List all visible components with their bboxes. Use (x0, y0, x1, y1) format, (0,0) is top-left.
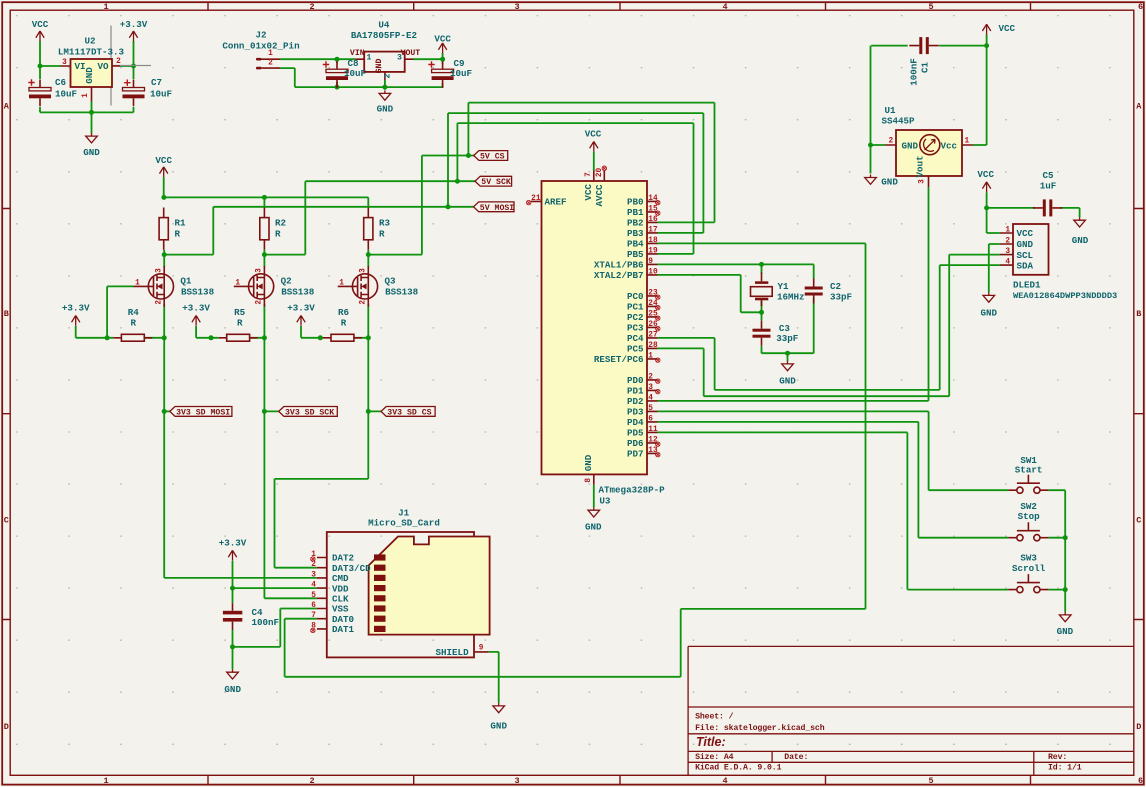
svg-text:Q1: Q1 (180, 276, 192, 287)
svg-text:PC5: PC5 (627, 344, 644, 355)
svg-text:DLED1: DLED1 (1013, 279, 1041, 290)
svg-text:5V CS: 5V CS (480, 153, 505, 162)
svg-text:2: 2 (309, 2, 314, 12)
svg-text:1uF: 1uF (1040, 180, 1057, 191)
svg-text:BSS138: BSS138 (181, 286, 215, 297)
svg-text:PB0: PB0 (627, 197, 644, 208)
svg-text:100nF: 100nF (252, 617, 280, 628)
svg-text:GND: GND (583, 454, 594, 471)
svg-text:A: A (1136, 102, 1142, 112)
svg-text:Vout: Vout (915, 155, 926, 177)
svg-text:Start: Start (1015, 464, 1043, 475)
svg-text:U1: U1 (884, 105, 896, 116)
svg-text:5V MOSI: 5V MOSI (480, 204, 514, 213)
svg-text:R6: R6 (338, 307, 349, 318)
svg-text:1: 1 (268, 50, 273, 58)
svg-text:PC3: PC3 (627, 323, 644, 334)
svg-text:1: 1 (135, 279, 140, 287)
svg-text:9: 9 (479, 644, 484, 652)
svg-text:C6: C6 (55, 77, 66, 88)
svg-text:PD3: PD3 (627, 407, 644, 418)
svg-text:Rev:: Rev: (1048, 753, 1067, 762)
svg-text:3: 3 (360, 268, 368, 273)
svg-text:+3.3V: +3.3V (120, 19, 148, 30)
svg-text:D: D (4, 722, 9, 732)
svg-text:KiCad E.D.A. 9.0.1: KiCad E.D.A. 9.0.1 (695, 763, 781, 773)
svg-text:R1: R1 (175, 217, 187, 228)
svg-text:8: 8 (585, 478, 593, 483)
svg-text:R5: R5 (234, 307, 246, 318)
svg-text:R3: R3 (379, 217, 391, 228)
svg-text:PD2: PD2 (627, 396, 644, 407)
svg-text:PB3: PB3 (627, 228, 644, 239)
svg-text:R: R (379, 229, 385, 240)
svg-text:10uF: 10uF (344, 68, 366, 79)
svg-text:B: B (1136, 309, 1141, 319)
svg-text:1: 1 (103, 776, 108, 786)
svg-text:C2: C2 (830, 281, 841, 292)
svg-text:GND: GND (377, 104, 394, 115)
svg-text:2: 2 (311, 561, 316, 569)
svg-text:XTAL2/PB7: XTAL2/PB7 (594, 270, 644, 281)
svg-text:10uF: 10uF (55, 89, 77, 100)
svg-text:1: 1 (366, 54, 371, 63)
svg-text:R: R (341, 318, 347, 329)
svg-text:XTAL1/PB6: XTAL1/PB6 (594, 260, 644, 271)
svg-text:C7: C7 (151, 77, 162, 88)
svg-text:D: D (1136, 722, 1141, 732)
svg-text:2: 2 (256, 300, 264, 305)
svg-text:GND: GND (779, 375, 796, 386)
svg-text:6: 6 (311, 602, 316, 610)
svg-text:PD0: PD0 (627, 375, 644, 386)
svg-text:Id: 1/1: Id: 1/1 (1048, 763, 1082, 773)
svg-text:PC1: PC1 (627, 302, 644, 313)
svg-text:VCC: VCC (434, 33, 451, 44)
svg-text:GND: GND (881, 176, 898, 187)
svg-text:PC2: PC2 (627, 312, 644, 323)
svg-text:VO: VO (97, 61, 109, 72)
svg-text:VCC: VCC (585, 129, 602, 140)
svg-text:16MHz: 16MHz (777, 292, 805, 303)
svg-text:+3.3V: +3.3V (287, 303, 315, 314)
svg-text:3: 3 (156, 268, 164, 273)
svg-text:GND: GND (224, 684, 241, 695)
svg-text:VCC: VCC (583, 184, 594, 201)
svg-text:Conn_01x02_Pin: Conn_01x02_Pin (222, 41, 299, 52)
svg-text:+3.3V: +3.3V (182, 303, 210, 314)
svg-text:Vcc: Vcc (940, 140, 957, 151)
svg-text:C: C (4, 516, 9, 526)
svg-text:R: R (131, 318, 137, 329)
svg-text:Title:: Title: (696, 735, 726, 749)
svg-text:GND: GND (1072, 235, 1089, 246)
svg-text:3: 3 (397, 54, 402, 63)
svg-text:R: R (237, 318, 243, 329)
svg-text:5V SCK: 5V SCK (481, 178, 511, 187)
svg-text:3: 3 (514, 776, 519, 786)
svg-text:PD4: PD4 (627, 417, 644, 428)
svg-text:GND: GND (375, 59, 384, 74)
svg-text:VCC: VCC (32, 19, 49, 30)
svg-text:6: 6 (1138, 2, 1143, 12)
svg-text:33pF: 33pF (776, 333, 798, 344)
svg-text:VOUT: VOUT (401, 49, 421, 58)
svg-text:R4: R4 (128, 307, 140, 318)
svg-text:C5: C5 (1042, 170, 1054, 181)
svg-text:Scroll: Scroll (1012, 563, 1046, 574)
svg-text:Stop: Stop (1018, 511, 1041, 522)
svg-text:SDA: SDA (1017, 260, 1034, 271)
svg-text:PC4: PC4 (627, 333, 644, 344)
svg-text:2: 2 (116, 58, 121, 66)
svg-text:Micro_SD_Card: Micro_SD_Card (368, 518, 440, 529)
svg-text:DAT1: DAT1 (332, 624, 355, 635)
svg-text:C1: C1 (920, 62, 931, 74)
svg-text:1: 1 (235, 279, 240, 287)
svg-text:3: 3 (514, 2, 519, 12)
svg-text:PD6: PD6 (627, 438, 644, 449)
svg-text:5: 5 (311, 592, 316, 600)
svg-text:100nF: 100nF (909, 58, 920, 86)
svg-text:33pF: 33pF (830, 292, 852, 303)
svg-text:BA17805FP-E2: BA17805FP-E2 (351, 30, 417, 41)
svg-text:3V3 SD SCK: 3V3 SD SCK (285, 408, 334, 417)
svg-text:Date:: Date: (784, 753, 808, 762)
svg-text:PB1: PB1 (627, 207, 644, 218)
svg-text:3V3 SD MOSI: 3V3 SD MOSI (176, 408, 230, 417)
svg-text:SHIELD: SHIELD (436, 647, 470, 658)
svg-text:3V3 SD CS: 3V3 SD CS (387, 408, 431, 417)
svg-text:B: B (4, 309, 9, 319)
svg-text:Y1: Y1 (778, 281, 790, 292)
svg-text:PC0: PC0 (627, 291, 644, 302)
svg-text:GND: GND (83, 147, 100, 158)
svg-text:R: R (275, 229, 281, 240)
svg-text:3: 3 (256, 268, 264, 273)
svg-text:3: 3 (311, 571, 316, 579)
svg-text:R2: R2 (275, 217, 286, 228)
svg-text:Q3: Q3 (385, 276, 397, 287)
svg-text:C: C (1136, 516, 1141, 526)
svg-text:3: 3 (62, 59, 67, 67)
svg-text:SS445P: SS445P (881, 115, 915, 126)
svg-text:A: A (4, 102, 10, 112)
svg-text:RESET/PC6: RESET/PC6 (594, 354, 644, 365)
svg-text:10uF: 10uF (450, 68, 472, 79)
svg-text:LM1117DT-3.3: LM1117DT-3.3 (58, 46, 125, 57)
svg-text:+3.3V: +3.3V (219, 538, 247, 549)
svg-text:File: skatelogger.kicad_sch: File: skatelogger.kicad_sch (695, 723, 825, 733)
svg-text:PD7: PD7 (627, 449, 644, 460)
svg-text:Size: A4: Size: A4 (695, 752, 734, 762)
svg-text:PB4: PB4 (627, 239, 644, 250)
svg-text:2: 2 (360, 300, 368, 305)
svg-text:J2: J2 (255, 29, 266, 40)
svg-text:1: 1 (965, 138, 970, 146)
svg-text:+3.3V: +3.3V (62, 303, 90, 314)
svg-text:2: 2 (309, 776, 314, 786)
svg-text:GND: GND (490, 721, 507, 732)
svg-text:PB2: PB2 (627, 218, 644, 229)
svg-text:GND: GND (1057, 626, 1074, 637)
svg-text:PB5: PB5 (627, 249, 644, 260)
svg-text:2: 2 (384, 73, 393, 78)
svg-text:5: 5 (928, 776, 933, 786)
svg-text:GND: GND (981, 308, 998, 319)
svg-text:7: 7 (585, 172, 593, 177)
svg-text:WEA012864DWPP3NDDDD3: WEA012864DWPP3NDDDD3 (1013, 291, 1117, 301)
svg-text:4: 4 (722, 2, 727, 12)
svg-text:2: 2 (156, 300, 164, 305)
svg-text:7: 7 (311, 612, 316, 620)
svg-text:GND: GND (585, 521, 602, 532)
svg-text:GND: GND (902, 140, 919, 151)
svg-text:1: 1 (103, 2, 108, 12)
svg-text:BSS138: BSS138 (281, 286, 315, 297)
svg-text:VCC: VCC (155, 155, 172, 166)
svg-text:PD5: PD5 (627, 428, 644, 439)
svg-text:J1: J1 (398, 507, 410, 518)
svg-text:VCC: VCC (977, 169, 994, 180)
svg-text:2: 2 (888, 138, 893, 146)
svg-text:AREF: AREF (545, 197, 567, 208)
svg-text:1: 1 (339, 279, 344, 287)
svg-text:VCC: VCC (1017, 228, 1034, 239)
svg-text:Q2: Q2 (281, 276, 292, 287)
svg-text:R: R (175, 229, 181, 240)
svg-text:4: 4 (311, 582, 316, 590)
svg-text:GND: GND (1017, 239, 1034, 250)
svg-text:2: 2 (268, 60, 273, 68)
svg-text:21: 21 (531, 195, 541, 203)
svg-text:AVCC: AVCC (594, 184, 605, 207)
svg-text:GND: GND (84, 67, 95, 84)
svg-text:BSS138: BSS138 (385, 286, 419, 297)
svg-text:4: 4 (722, 776, 727, 786)
svg-text:PD1: PD1 (627, 386, 644, 397)
svg-text:ATmega328P-P: ATmega328P-P (599, 485, 666, 496)
svg-text:U3: U3 (599, 495, 611, 506)
svg-text:1: 1 (82, 93, 90, 98)
svg-text:SCL: SCL (1017, 250, 1034, 261)
svg-text:5: 5 (928, 2, 933, 12)
svg-text:Sheet: /: Sheet: / (695, 712, 734, 722)
svg-text:VCC: VCC (999, 23, 1016, 34)
svg-text:3: 3 (918, 179, 926, 184)
svg-text:U2: U2 (84, 35, 95, 46)
svg-text:6: 6 (1138, 776, 1143, 786)
svg-text:10uF: 10uF (150, 89, 172, 100)
